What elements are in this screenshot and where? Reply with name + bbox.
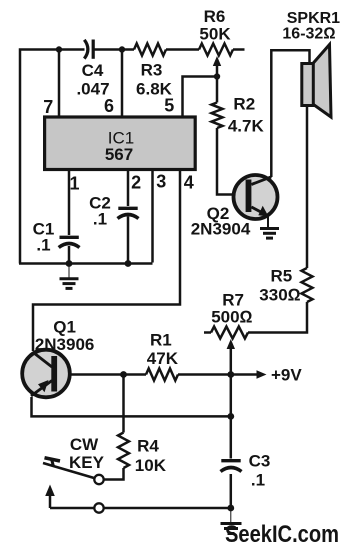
wire: R6 wiper stem [216,62,219,77]
svg-text:47K: 47K [147,349,179,368]
svg-text:50K: 50K [199,25,231,44]
wire: Q1 emitter down and across to +9V rail [32,397,231,416]
wire: R7 wiper stem down to +9V junction [230,347,233,375]
wire: pin 7 vertical [58,50,61,119]
node: pin7 / top wire junction [56,46,62,52]
wire: left rail vertical [20,50,85,264]
svg-text:C3: C3 [249,452,271,471]
svg-text:6: 6 [104,96,114,116]
ground below Q2 [260,229,279,239]
svg-text:7: 7 [43,97,53,117]
svg-text:330Ω: 330Ω [259,286,300,305]
transistor Q2 (2N3904) [234,175,278,228]
svg-text:CW: CW [70,435,99,454]
svg-text:R4: R4 [137,437,159,456]
node: bottom rail / C3 ground junction [227,505,234,512]
wire: CW key knob [45,458,61,461]
svg-text:SeekIC.com: SeekIC.com [225,521,339,548]
svg-text:R2: R2 [233,95,255,114]
node: wiper / pin5 / R2 junction [214,73,220,79]
wire: wiper junction down to R2 top [216,77,219,103]
CW key upper contact [94,475,103,484]
wire: C1 bottom to ground rail [68,246,71,264]
wire: +9V junction down through C3 junction [230,375,233,459]
wire: R4 top from base junction [122,375,125,433]
svg-text:.1: .1 [251,471,265,490]
wire: R2 bottom to Q2 base [217,128,247,195]
transistor Q1 (2N3906) [22,350,70,398]
wire: top wire R3 to R6 [166,48,199,51]
svg-text:10K: 10K [135,456,167,475]
svg-text:3: 3 [156,172,166,192]
wire: Q1 base to R1 [58,373,147,376]
svg-text:SPKR1: SPKR1 [287,10,340,27]
svg-text:C4: C4 [82,61,104,80]
wire: Q2 collector vertical and speaker top wire [271,50,309,177]
node: C2 / ground rail junction [125,260,132,267]
svg-text:2: 2 [131,173,141,193]
svg-text:1: 1 [69,174,79,194]
wire: pin 2 vertical to C2 [127,170,130,207]
wire: speaker bottom terminal down to R5 [306,106,309,269]
wire: pin 4 route to Q1 collector [33,170,180,352]
node: +9V junction [227,371,234,378]
ground below C1 [60,264,79,289]
svg-text:R3: R3 [141,61,163,80]
node: pin6 / top wire junction [119,46,125,52]
wire: top wire C4 to R3 [94,48,135,51]
wire: R7 left stub [204,331,211,334]
speaker SPKR1 [302,45,331,118]
wire: pin 1 vertical to C1 [68,170,71,236]
svg-text:.1: .1 [36,236,50,255]
wire: CW key lever [43,463,96,479]
resistor R1 [146,369,178,381]
svg-text:R6: R6 [204,7,226,26]
node: C1 / ground rail junction [66,260,73,267]
resistor R2 [212,103,223,129]
wire: +9V arrow line [231,373,259,376]
wire: R5 bottom to R7 track right end [248,302,307,333]
svg-text:R5: R5 [271,267,293,286]
resistor R4 [118,433,129,469]
resistor R7 (potentiometer track) [211,327,248,339]
ground below C3 [221,508,242,534]
wire: bottom rail left of key contact [50,507,95,510]
CW key lower contact [94,503,103,512]
wire: R6 right stub [233,48,245,51]
wire: pin 6 vertical [121,50,124,119]
svg-text:567: 567 [105,145,133,164]
resistor R6 (potentiometer) [199,44,233,56]
wire: C2 bottom to ground rail [127,217,130,264]
svg-text:.1: .1 [93,210,107,229]
capacitor C4 [84,40,93,59]
R6 wiper arrowhead [213,56,221,66]
svg-text:4: 4 [184,173,194,193]
svg-text:500Ω: 500Ω [211,308,252,327]
wire: C3 bottom to ground junction [230,474,233,508]
wire: ground rail under IC [19,262,153,265]
wire: bottom-left arrow stem [49,491,52,508]
+9V arrowhead [257,370,267,378]
capacitor C3 [221,461,242,472]
svg-text:4.7K: 4.7K [228,117,265,136]
wire: pin 5 to R6 wiper junction [183,77,218,119]
resistor R3 [134,44,166,56]
wire: R1 right to +9V junction [178,373,231,376]
svg-text:2N3906: 2N3906 [35,335,95,354]
svg-text:5: 5 [164,96,174,116]
svg-text:R1: R1 [150,331,172,350]
svg-text:Q1: Q1 [53,318,76,337]
node: Q1 base / R1 / R4 junction [120,371,127,378]
svg-text:KEY: KEY [69,453,105,472]
svg-text:16-32Ω: 16-32Ω [282,26,335,43]
node: emitter rail junction [227,413,234,420]
wire: pin 3 vertical [151,170,154,263]
resistor R5 [302,268,313,302]
svg-text:2N3904: 2N3904 [191,220,251,239]
R7 wiper arrowhead [227,339,235,349]
IC1 body [45,117,196,170]
capacitor C1 [59,237,80,247]
wire: bottom rail right of key contact [104,507,231,510]
wire: R4 bottom to key upper contact [104,468,124,480]
capacitor C2 [118,208,139,218]
bottom-left arrowhead [45,485,55,497]
svg-text:+9V: +9V [271,366,302,385]
